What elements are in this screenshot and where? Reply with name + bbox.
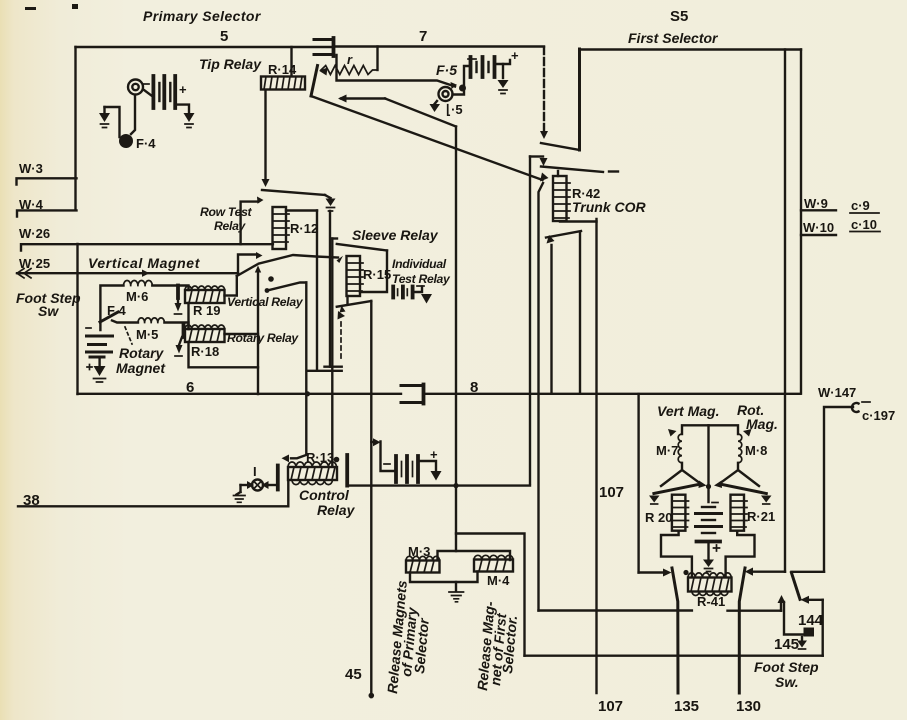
svg-text:F·5: F·5	[436, 62, 457, 78]
wire R-13 bracket to x371	[347, 484, 371, 486]
arrow tick M-7	[668, 429, 677, 437]
junction dot 45-line bottom	[369, 693, 375, 699]
svg-text:Row Test: Row Test	[200, 205, 253, 219]
first selector rect inner vertical x785	[784, 50, 786, 572]
relay coil R-19	[185, 286, 225, 303]
wire slant x237 to arm	[237, 265, 257, 277]
arrow center right	[714, 481, 722, 489]
wire y485 horizontal to x530	[371, 484, 530, 486]
connector on rail	[401, 386, 421, 403]
first selector rect outer vertical x801	[800, 50, 802, 394]
svg-text:R-41: R-41	[697, 594, 725, 609]
arrowhead contact3	[547, 235, 555, 244]
wire R-15 bottom stub	[346, 296, 348, 303]
wire M-3 M-4 bracket top	[438, 551, 511, 560]
wire dashed vertical node 7 drop	[543, 47, 545, 132]
wire center ground stem	[455, 582, 457, 591]
wire y611 right segment	[728, 610, 782, 612]
arrowhead R-13 left	[282, 455, 290, 463]
svg-text:W·3: W·3	[19, 161, 43, 176]
junction dot x456 y485	[453, 483, 458, 488]
svg-text:Sleeve Relay: Sleeve Relay	[352, 227, 439, 243]
diagonal wire short to x456	[385, 99, 456, 127]
svg-text:Sw: Sw	[38, 303, 59, 319]
svg-text:Sw.: Sw.	[775, 674, 799, 690]
first selector rect left vertical upper	[578, 49, 581, 150]
wire battery feed arrow from x371	[371, 441, 374, 443]
wire switch right vertical	[822, 600, 824, 656]
arrow M-6 plate down	[175, 298, 182, 314]
contact R-20 bar	[654, 485, 698, 494]
battery center minus	[712, 502, 718, 504]
ground battery M	[94, 379, 106, 383]
svg-text:Foot Step: Foot Step	[754, 659, 819, 675]
lamp I	[252, 480, 263, 491]
svg-text:107: 107	[599, 484, 624, 501]
svg-text:+: +	[179, 82, 187, 97]
svg-text:Individual: Individual	[392, 257, 447, 271]
ground F-5 battery	[498, 80, 509, 94]
speck top left 2	[72, 4, 78, 9]
wire W-25	[17, 272, 238, 274]
wire x371 vertical 45-line	[370, 301, 372, 697]
wire 145 branch	[784, 602, 806, 635]
wire R-13 left arrow	[291, 455, 308, 459]
contact vertical relay arm	[259, 255, 338, 264]
svg-text:+: +	[430, 447, 438, 462]
arrow battery M down	[94, 366, 106, 376]
wire top line to R-14 coil	[290, 47, 292, 76]
lamp F-4	[128, 80, 143, 135]
contact tip relay armature lower	[262, 190, 325, 195]
svg-text:Relay: Relay	[317, 502, 356, 518]
magnet coil M-3	[406, 556, 440, 572]
arrowhead sleeve lower	[338, 306, 346, 320]
svg-text:Rotary: Rotary	[119, 345, 165, 361]
battery control cells	[396, 456, 418, 482]
arrow tick M-8	[743, 429, 752, 437]
wire x538 vertical	[539, 183, 544, 611]
svg-text:Trunk COR: Trunk COR	[572, 199, 647, 215]
svg-text:M·6: M·6	[126, 289, 148, 304]
arrowhead arrow line left	[338, 95, 347, 103]
battery center stack	[696, 507, 722, 559]
contact dot F-4	[119, 134, 133, 148]
battery control right bracket	[418, 461, 436, 470]
wire bottom rail left segment	[78, 393, 402, 395]
lamp F-5	[439, 87, 453, 101]
wire M-6 right lead	[152, 286, 188, 291]
wire x456 vertical	[455, 127, 457, 552]
ground F-5 left	[430, 101, 441, 112]
bar terminal y367	[325, 366, 342, 368]
resistor r zigzag	[321, 66, 378, 75]
wire x330 vertical to bar	[329, 211, 331, 367]
coil M-5	[138, 318, 164, 323]
diagonal wire long to R-42 contact	[311, 96, 543, 180]
ground R-20	[649, 496, 660, 505]
arrow into lamp left	[241, 484, 249, 486]
ground tip relay contact	[325, 195, 336, 211]
junction dot R-41 left	[683, 570, 688, 575]
relay coil R-15	[347, 256, 364, 296]
svg-text:c·9: c·9	[851, 198, 870, 213]
wire y656 horizontal	[525, 655, 823, 657]
flare leg right	[739, 568, 745, 693]
magnet coil M-4	[474, 555, 513, 571]
battery F-5	[468, 48, 519, 78]
ground M-3 M-4	[449, 592, 464, 602]
contact rotary relay arm	[267, 283, 306, 291]
battery R-15	[393, 286, 424, 298]
arrowhead up x258	[255, 266, 261, 273]
wire R-19 R-18 left link	[187, 303, 189, 329]
stub W-9	[801, 209, 836, 211]
svg-text:130: 130	[736, 698, 761, 715]
svg-text:R 19: R 19	[193, 303, 220, 318]
svg-text:⌊·5: ⌊·5	[446, 102, 463, 117]
arrowhead dashed drop	[540, 131, 548, 139]
contact plate lamp right	[276, 466, 280, 490]
wire y611 up arrow left contact	[780, 602, 782, 611]
arrow into right flare	[752, 571, 785, 573]
contact dot F-5	[459, 85, 466, 92]
wire x237 vertical to R-19	[236, 276, 238, 296]
contact R-42 upper	[541, 143, 580, 150]
svg-text:5: 5	[220, 28, 228, 45]
dotted linkage F4	[125, 327, 132, 344]
svg-text:W·10: W·10	[803, 220, 834, 235]
wire x258 vertical	[257, 273, 259, 395]
contact sleeve lower arm	[337, 301, 372, 307]
wire W-147 bracket	[824, 407, 853, 572]
relay coil R-14	[261, 77, 305, 90]
armature plate R-14 right	[311, 66, 318, 97]
contact F4 slant	[100, 312, 118, 322]
svg-text:R·18: R·18	[191, 344, 219, 359]
arrow battery control down	[431, 471, 442, 481]
wire x317 vertical R-12 top to bar	[316, 211, 318, 371]
contact sleeve relay arm	[337, 244, 387, 251]
battery control bracket	[381, 442, 395, 472]
relay coil R-13	[288, 462, 337, 485]
svg-text:Control: Control	[299, 487, 350, 503]
foot switch arrow horizontal	[808, 599, 823, 601]
ground lamp I	[234, 492, 246, 502]
connector at node 5/7 top line	[314, 40, 331, 55]
arrowhead diagonal long end	[540, 173, 549, 182]
wire top border mid segment	[336, 45, 544, 47]
wire M-3 M-4 bottom link	[410, 572, 478, 583]
svg-text:W·147: W·147	[818, 385, 856, 400]
wire x596 vertical long 107	[595, 219, 597, 693]
arrowhead zigzag left	[319, 68, 328, 76]
coil M-6	[124, 280, 153, 285]
svg-text:R·21: R·21	[747, 509, 775, 524]
arrowhead hook R-12	[257, 197, 264, 204]
svg-text:45: 45	[345, 666, 362, 683]
connector bar top line	[332, 38, 336, 56]
svg-text:Tip Relay: Tip Relay	[199, 56, 262, 72]
svg-text:Vertical Magnet: Vertical Magnet	[88, 255, 201, 271]
wire arrow line to diagonal	[341, 97, 385, 99]
wire release loop top	[456, 534, 525, 656]
ground battery center	[703, 560, 714, 572]
wire zigzag to top line	[376, 47, 378, 71]
contact plate M-5 right	[182, 324, 186, 338]
ground 145	[797, 637, 807, 649]
arrowhead contact2	[540, 158, 548, 166]
flare leg left	[672, 568, 678, 693]
wire top border left segment	[76, 46, 332, 48]
svg-text:M·7: M·7	[656, 443, 678, 458]
junction dot R-13 right	[334, 457, 340, 463]
wire W-3	[17, 178, 77, 184]
wire x551 vertical	[550, 245, 552, 394]
wire x530 vertical	[529, 157, 531, 484]
svg-text:M·5: M·5	[136, 327, 158, 342]
junction dot rail x307	[305, 391, 310, 396]
wire F-4 hook	[105, 107, 120, 137]
svg-text:R·12: R·12	[290, 221, 318, 236]
svg-text:First Selector: First Selector	[628, 30, 719, 46]
stub W-10	[801, 234, 836, 236]
wire 38	[18, 480, 288, 506]
svg-text:F·4: F·4	[136, 136, 156, 151]
foot switch top wire	[791, 571, 824, 573]
wire R-21 bottom to R-41	[726, 531, 755, 577]
battery control minus	[384, 463, 390, 465]
contact R-21 bar	[722, 485, 766, 494]
wire R-15 box right	[360, 251, 387, 293]
svg-text:107: 107	[598, 698, 623, 715]
contact square 144	[804, 628, 815, 637]
speck top left	[25, 7, 36, 10]
wire W-26	[21, 244, 273, 250]
arrowhead W-25 left chevrons	[17, 269, 31, 278]
svg-text:Test Relay: Test Relay	[392, 272, 451, 286]
wire y611 left segment	[539, 609, 692, 611]
battery M block	[87, 336, 113, 366]
hook c-197	[852, 403, 859, 412]
contact plate R-13 right	[345, 455, 349, 486]
wire R-14 coil drop	[264, 90, 266, 181]
wire R-42 bottom to x596	[560, 220, 597, 222]
svg-text:Vert Mag.: Vert Mag.	[657, 403, 720, 419]
relay coil R-21	[731, 495, 748, 531]
wire x580 vertical	[579, 232, 581, 394]
bracket M-7 M-8 top	[682, 425, 738, 434]
svg-text:W·26: W·26	[19, 226, 50, 241]
junction dot x271	[268, 276, 274, 282]
contact dash mark	[609, 170, 618, 172]
svg-text:S5: S5	[670, 8, 688, 25]
wire R-19 right lead	[225, 294, 237, 296]
junction dot center	[706, 484, 711, 489]
wire center stem	[707, 425, 709, 502]
relay coil R-18	[185, 325, 225, 342]
arrow M-5 plate down	[175, 337, 183, 356]
ground arrow R-15 battery	[421, 294, 432, 304]
contact dot rotary arm	[265, 288, 270, 293]
first selector rect top	[580, 48, 802, 50]
relay coil R-12	[273, 207, 290, 249]
arrowhead battery feed	[373, 438, 381, 446]
svg-text:Magnet: Magnet	[116, 360, 166, 376]
wire left border vertical upper	[74, 47, 76, 210]
battery M plus dot	[87, 365, 92, 370]
arrowhead into F-5 lamp	[451, 82, 458, 89]
magnet block left wall	[637, 394, 639, 573]
hook wire above R-12	[241, 202, 258, 245]
arrow into lamp right	[268, 484, 278, 486]
foot switch slant contact	[791, 573, 800, 600]
wire R-18 right lead	[225, 333, 259, 335]
wire F-5 lamp to battery	[453, 66, 471, 95]
svg-text:144: 144	[798, 612, 824, 629]
svg-text:Primary Selector: Primary Selector	[143, 8, 262, 24]
wire sleeve pivot vertical x332	[331, 239, 333, 467]
arrow marker on W-25 line	[142, 270, 150, 277]
svg-text:+: +	[511, 48, 519, 63]
svg-text:I: I	[253, 464, 257, 479]
wire F4 to M-5	[112, 321, 138, 323]
sleeve pivot tick	[332, 237, 337, 239]
wire M-5 right lead	[164, 323, 188, 330]
svg-text:7: 7	[419, 28, 427, 45]
arrowhead R-14 drop	[262, 179, 270, 187]
svg-text:Vertical Relay: Vertical Relay	[227, 295, 304, 309]
wire R-18 bottom box	[189, 342, 259, 367]
magnet coil M-7	[678, 434, 682, 463]
svg-text:r: r	[347, 52, 353, 67]
wire R-20 bottom to R-41	[661, 531, 692, 577]
wire W-25 hook up	[238, 255, 256, 274]
arrow into left flare	[639, 571, 664, 573]
wire connector bottom to F-5	[337, 55, 456, 87]
wire M-6 left lead	[100, 286, 123, 331]
arrow center left	[699, 481, 707, 489]
wire dashed x341	[340, 322, 342, 358]
wire lamp left down	[239, 485, 241, 492]
skirt M-7	[661, 463, 701, 486]
ground F-4 left	[99, 107, 110, 128]
svg-text:145: 145	[774, 636, 799, 653]
contact plate M-6 right	[176, 286, 180, 299]
battery M block minus tick	[86, 327, 91, 329]
connector bar rail	[422, 385, 426, 404]
contact R-42 third	[546, 231, 581, 238]
magnet coil M-8	[738, 434, 742, 463]
skirt M-8	[719, 463, 759, 486]
svg-text:135: 135	[674, 698, 699, 715]
ground F-4 battery right	[184, 113, 195, 128]
wire bracket to R-42 contact2	[530, 155, 543, 157]
wire R-12 top to x317	[286, 209, 317, 211]
ground R-21	[761, 496, 772, 505]
wire bottom rail right segment	[426, 393, 801, 395]
wire x306 vertical to R-13	[305, 283, 307, 455]
svg-text:M·4: M·4	[487, 573, 510, 588]
relay coil R-42	[553, 171, 570, 221]
wire left border vertical lower	[76, 244, 78, 394]
battery F-4	[143, 76, 189, 113]
svg-text:R 20: R 20	[645, 510, 672, 525]
relay coil R-20	[672, 495, 689, 531]
arrowhead W-25 hook	[256, 252, 263, 259]
minus c-197	[862, 401, 870, 403]
svg-text:M·8: M·8	[745, 443, 767, 458]
svg-text:c·10: c·10	[851, 217, 877, 232]
arrowhead into sleeve contact	[337, 256, 344, 263]
wire W-4	[17, 210, 77, 216]
battery center plus	[714, 545, 720, 551]
contact R-42 lower	[541, 167, 603, 173]
svg-text:W·9: W·9	[804, 196, 828, 211]
bar terminal y371	[308, 370, 342, 372]
svg-text:c·197: c·197	[862, 408, 895, 423]
relay coil R-41	[688, 573, 732, 596]
